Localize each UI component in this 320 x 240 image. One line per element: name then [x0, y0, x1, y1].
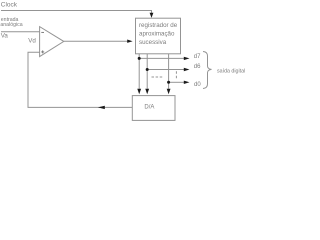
svg-text:aproximação: aproximação	[139, 31, 175, 38]
svg-text:d0: d0	[194, 82, 201, 88]
svg-text:Vd: Vd	[28, 37, 36, 44]
svg-text:D/A: D/A	[144, 105, 154, 111]
svg-text:Clock: Clock	[1, 1, 18, 8]
svg-text:d6: d6	[194, 64, 201, 70]
svg-text:analógica: analógica	[0, 22, 22, 28]
svg-text:sucessiva: sucessiva	[139, 39, 167, 46]
svg-text:Va: Va	[1, 33, 9, 40]
svg-text:registrador de: registrador de	[139, 22, 178, 29]
svg-text:d7: d7	[194, 54, 201, 60]
svg-text:saída digital: saída digital	[217, 68, 245, 74]
